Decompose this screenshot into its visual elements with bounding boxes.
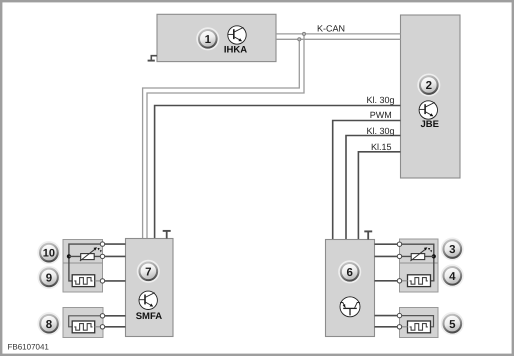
motor unit box 6 — [326, 240, 375, 337]
hall sensor 5 body — [408, 321, 431, 333]
sensor box right top (items 3 and 4) — [400, 239, 439, 292]
control unit box U1 IHKA — [157, 14, 276, 61]
badge 3 — [442, 238, 463, 259]
hall sensor 5 input stub — [400, 326, 408, 328]
connector pins right top box — [397, 242, 401, 246]
wire Kl.30g (JBE to SMFA) — [155, 106, 401, 239]
hall sensor 5 wave — [410, 324, 428, 331]
hall sensor 8 output stub — [95, 326, 103, 328]
svg-text:Kl. 30g: Kl. 30g — [367, 95, 395, 105]
wire PWM (JBE to unit 6) — [333, 121, 401, 240]
junction dot left pot — [67, 254, 71, 258]
junction dot on K-CAN top line — [302, 32, 305, 35]
svg-text:2: 2 — [426, 80, 432, 92]
transistor icon U7 — [139, 291, 157, 309]
control unit box U2 JBE — [401, 15, 461, 178]
potentiometer R3 adjust marks — [428, 248, 430, 250]
badge 10 — [38, 242, 59, 263]
svg-text:SMFA: SMFA — [136, 311, 163, 322]
hall sensor 4 input stub — [400, 280, 408, 282]
svg-text:4: 4 — [449, 271, 456, 283]
ground symbol above SMFA — [163, 231, 171, 239]
wire K-CAN branch A (bottom line to SMFA) — [143, 39, 300, 238]
svg-text:3: 3 — [449, 244, 455, 256]
loop wire sensor 8 — [69, 316, 103, 327]
svg-text:6: 6 — [346, 267, 352, 279]
actuator unit box U7 SMFA — [126, 239, 174, 337]
hall sensor 8 wave — [74, 324, 92, 331]
junction dot on K-CAN bottom line — [298, 38, 301, 41]
hall sensor 9 wave — [74, 278, 92, 285]
svg-text:JBE: JBE — [420, 119, 438, 130]
svg-text:Kl.15: Kl.15 — [371, 142, 392, 152]
sensor box left top (items 10 and 9) — [63, 240, 103, 293]
wires unit 6 to right sensors — [375, 244, 398, 327]
badge 7 — [138, 261, 159, 282]
svg-text:Kl. 30g: Kl. 30g — [367, 126, 395, 136]
hall sensor 8 body — [72, 321, 95, 333]
separator line left sensor box — [63, 262, 103, 264]
transistor icon unit 6 (rotated) — [340, 297, 360, 317]
wire K-CAN pair (IHKA to JBE) — [143, 34, 401, 239]
svg-text:FB6107041: FB6107041 — [8, 343, 50, 352]
svg-text:10: 10 — [43, 248, 55, 260]
badge 5 — [442, 313, 463, 334]
potentiometer R3 wires — [400, 255, 434, 257]
potentiometer R10 wires — [69, 255, 103, 257]
supply wire inside right sensor box — [400, 244, 434, 281]
badge 1 — [197, 28, 218, 49]
hall sensor 4 wave — [410, 278, 428, 285]
potentiometer R10 adjust marks — [98, 248, 100, 250]
connector pins left top box — [100, 242, 104, 246]
potentiometer R10 body — [81, 254, 95, 260]
svg-text:K-CAN: K-CAN — [317, 23, 345, 33]
potentiometer R10 arrow — [80, 249, 96, 261]
svg-text:7: 7 — [145, 267, 151, 279]
svg-text:5: 5 — [449, 319, 456, 331]
loop wire sensor 5 — [400, 316, 434, 327]
potentiometer R3 body — [411, 254, 425, 260]
separator line right sensor box — [400, 262, 439, 264]
wire K-CAN branch B (top line to SMFA) — [147, 34, 304, 239]
transistor icon U2 — [419, 101, 437, 119]
svg-text:1: 1 — [205, 34, 212, 46]
ground symbol above unit 6 — [364, 231, 372, 239]
supply wire inside left sensor box — [69, 244, 103, 281]
svg-text:8: 8 — [46, 319, 53, 331]
svg-text:PWM: PWM — [370, 110, 392, 120]
ground symbol at IHKA — [148, 56, 157, 61]
sensor box left bottom (item 8) — [63, 308, 103, 338]
connector pins left bottom box — [100, 314, 104, 318]
hall sensor 4 body — [408, 275, 431, 287]
svg-text:IHKA: IHKA — [224, 45, 247, 56]
svg-text:9: 9 — [46, 273, 52, 285]
wire Kl.30g second (JBE to unit 6) — [346, 136, 401, 240]
hall sensor 9 output stub — [95, 280, 103, 282]
sensor box right bottom (item 5) — [400, 308, 439, 338]
badge 8 — [38, 313, 59, 334]
wire Kl.15 (JBE to unit 6) — [358, 152, 400, 240]
transistor icon U1 — [228, 26, 246, 44]
badge 2 — [418, 74, 439, 95]
badge 4 — [442, 265, 463, 286]
badge 9 — [38, 267, 59, 288]
connector pins right bottom box — [397, 313, 401, 317]
potentiometer R3 arrow — [410, 249, 426, 261]
badge 6 — [339, 261, 360, 282]
wires left sensors to SMFA — [105, 244, 126, 327]
junction dot right pot — [432, 254, 436, 258]
hall sensor 9 body — [72, 275, 95, 287]
